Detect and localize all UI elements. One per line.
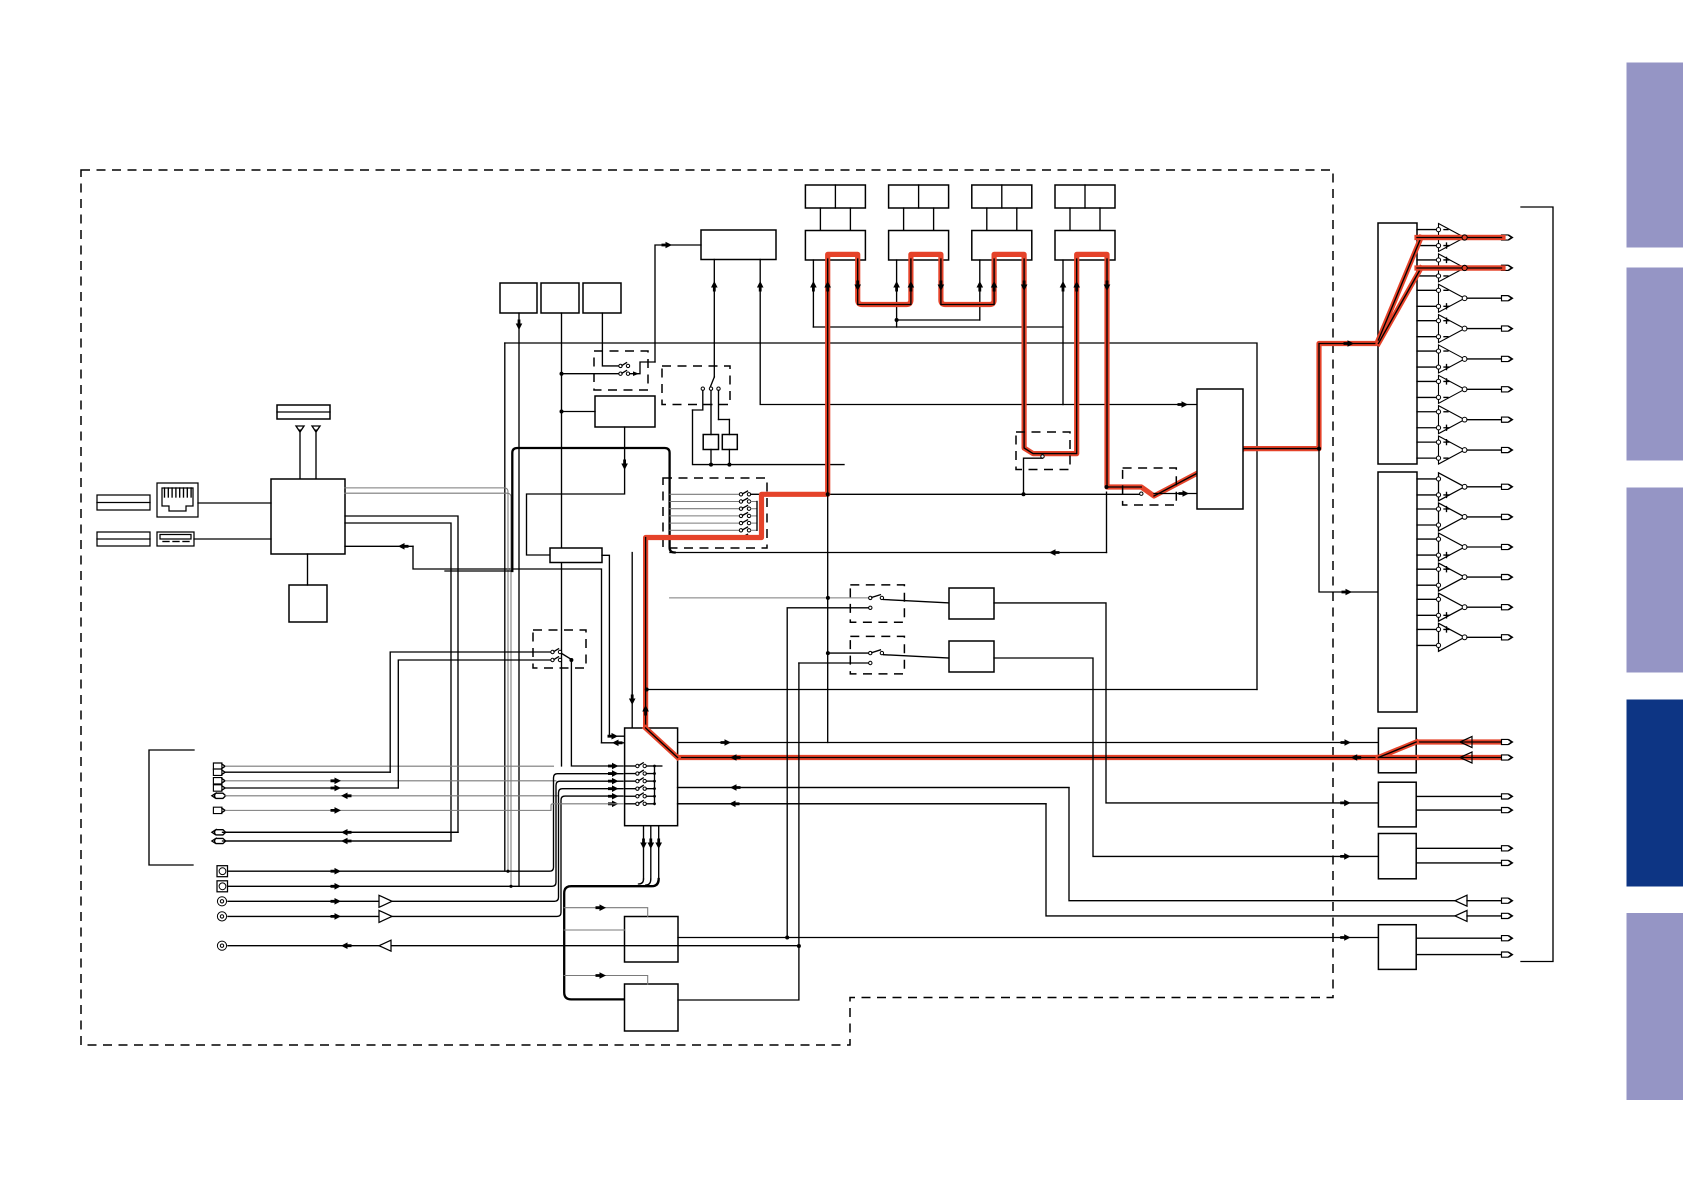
box3 output line xyxy=(602,313,620,366)
av out box xyxy=(1378,782,1416,827)
wire out row 832 xyxy=(226,831,459,833)
hdmi selector box (dashed) xyxy=(663,478,767,548)
sub dac box 2 output xyxy=(678,663,799,1000)
speaker line 5 xyxy=(1467,358,1502,360)
zone driver overlay xyxy=(1460,737,1472,748)
monitor out jack 2 xyxy=(215,838,226,843)
speaker terminal 7 xyxy=(1502,417,1512,422)
power amp 6 xyxy=(1417,380,1437,382)
red dac diagonals overlay xyxy=(1378,238,1421,344)
digital input jack y766 xyxy=(213,763,222,769)
trigger jack 2 xyxy=(1502,952,1512,957)
surround line 6 xyxy=(1467,636,1502,638)
wire net return y569 xyxy=(413,546,602,743)
analog in jack cc1 xyxy=(217,897,226,906)
surround amp 4 xyxy=(1417,568,1437,570)
wire into control box xyxy=(655,245,701,362)
relay B output xyxy=(884,655,949,658)
hdmi input group 3 connector box xyxy=(972,185,1032,208)
surround terminal 5 xyxy=(1502,605,1512,610)
selector row 7 contacts xyxy=(739,536,742,539)
junction red corner xyxy=(826,492,830,496)
zone line drivers xyxy=(1460,737,1472,748)
wire input row y780 xyxy=(226,780,557,782)
selector row1 link xyxy=(751,493,762,495)
wifi antenna board xyxy=(277,405,330,419)
speaker terminal 5 xyxy=(1502,356,1512,361)
network sub link xyxy=(307,554,309,585)
box1 output line xyxy=(518,313,520,886)
arc switch box (dashed) xyxy=(1123,468,1177,505)
hdmi group 4 links xyxy=(1069,208,1071,231)
analog in jack sq1 xyxy=(217,866,228,877)
hdmi group 4 signal line xyxy=(1062,260,1064,405)
dsp input row 4 xyxy=(625,788,636,790)
speaker terminal 4 xyxy=(1502,326,1512,331)
speaker terminal 1 xyxy=(1502,235,1512,240)
buffer A to out xyxy=(994,603,1378,803)
surround amp 2 xyxy=(1417,508,1437,510)
buffer B to out xyxy=(994,658,1378,856)
side tab 3 xyxy=(1627,488,1684,673)
relay contact xyxy=(1041,455,1044,458)
tx backchannel down xyxy=(1106,492,1108,552)
selector row 2 xyxy=(670,501,740,503)
wire out row 841 xyxy=(226,840,452,842)
sub dac box 2 xyxy=(625,984,679,1031)
arrows on red legs xyxy=(824,281,831,292)
subwoofer pre line 1 xyxy=(678,788,1455,901)
wire hdmi g4 to tx y404 xyxy=(1063,404,1197,406)
hdmi out relay box (dashed) xyxy=(1016,432,1070,470)
selector row 5 xyxy=(670,522,740,524)
hdmi group 1 links xyxy=(819,208,821,231)
relay A row2 xyxy=(787,608,868,938)
wire core hdmi chain xyxy=(645,538,647,729)
input relay box S2 (dashed) xyxy=(533,630,586,668)
hdmi input group 1 connector box xyxy=(805,185,865,208)
digital input jack y780 xyxy=(213,778,222,784)
side tab 4 (active, dark) xyxy=(1627,700,1684,887)
hdmi input group 4 connector box xyxy=(1055,185,1115,208)
dsp input row 5 xyxy=(625,795,636,797)
SoC west stub xyxy=(445,570,512,572)
red analog out rows xyxy=(1417,238,1505,269)
wire av2 riser xyxy=(398,660,551,788)
digital input jack y772 xyxy=(213,769,222,775)
OSD output xyxy=(602,555,609,736)
subwoofer jack 1 xyxy=(1502,898,1512,903)
surround amp 6 xyxy=(1417,628,1437,630)
transformer T1 box xyxy=(703,435,718,450)
net return arrow xyxy=(398,543,409,550)
primary rail top xyxy=(719,419,730,421)
relay B row2 xyxy=(799,662,869,664)
digital input jack y795 xyxy=(215,793,226,798)
selector row 1 xyxy=(670,493,740,495)
wire input row y772 xyxy=(226,771,391,773)
hdmi group 1 receiver box xyxy=(805,231,865,261)
dsp outputs east xyxy=(678,787,1069,789)
surround amp 5 xyxy=(1417,598,1437,600)
wire front bus south xyxy=(504,343,506,871)
selector row 4 xyxy=(670,515,740,517)
dsp box xyxy=(625,728,678,826)
wire control to tx xyxy=(759,260,761,344)
speaker terminal 3 xyxy=(1502,296,1512,301)
transformer T2 box xyxy=(722,435,737,450)
side tab 5 xyxy=(1627,913,1684,1100)
analog in jack cc2 xyxy=(217,912,226,921)
speaker line 7 xyxy=(1467,419,1502,421)
dsp input row 2 xyxy=(625,773,636,775)
wire av1 riser xyxy=(390,652,551,772)
USB jack xyxy=(157,532,194,546)
antenna 1 xyxy=(296,426,304,432)
dashed main unit border xyxy=(81,170,1333,1045)
buffer box A xyxy=(949,588,994,619)
power amp 7 xyxy=(1417,411,1437,413)
side tab 2 xyxy=(1627,268,1684,461)
wire soc-hdmi control y553 xyxy=(670,552,1107,554)
system control box xyxy=(701,230,776,260)
dsp to dac bus (bold) xyxy=(564,879,659,999)
speaker terminal 8 xyxy=(1502,447,1512,452)
hdmi group 2 links xyxy=(903,208,905,231)
hdmi group 2 receiver box xyxy=(889,231,949,261)
LAN port plate xyxy=(97,495,150,510)
trigger jack 1 xyxy=(1502,936,1512,941)
wire to dac2 xyxy=(1319,449,1378,592)
wire input row y788 xyxy=(226,787,399,789)
S2 contacts row2 xyxy=(551,658,554,661)
relay A output xyxy=(884,600,949,603)
rec out relay B (dashed) xyxy=(850,636,904,674)
surround line 3 xyxy=(1467,546,1502,548)
surround line 5 xyxy=(1467,606,1502,608)
speaker line 4 xyxy=(1467,328,1502,330)
net ctl line 1 xyxy=(223,516,459,832)
wire analog row 916 xyxy=(228,796,623,916)
hdmi audio down leg xyxy=(827,494,829,742)
input group bracket xyxy=(149,750,194,865)
wire dsp in west y742.8 xyxy=(602,742,625,744)
hdmi tx box xyxy=(1197,389,1243,509)
power amp 2 xyxy=(1417,259,1437,261)
digital input jack y788 xyxy=(213,785,222,791)
power amp 3 xyxy=(1417,289,1437,291)
box2 output line xyxy=(561,313,563,766)
surround amp 1 xyxy=(1417,478,1437,480)
relay A row1 xyxy=(670,597,869,599)
wire input row y766 xyxy=(226,765,554,767)
red to dsp and pre out xyxy=(646,728,1503,758)
dsp input row 1 xyxy=(625,765,636,767)
wire hdmi group bus y327 xyxy=(813,326,1063,328)
dsp red diagonal core xyxy=(646,728,678,758)
relay S1 contacts row2 xyxy=(562,373,621,375)
speaker line 3 xyxy=(1467,297,1502,299)
wire tuner riser r6 xyxy=(551,804,623,811)
T1 ground leg xyxy=(710,450,712,465)
sub dac box 1 inputs xyxy=(564,908,648,917)
rec out relay A (dashed) xyxy=(850,585,904,622)
wire dsp in y736 xyxy=(609,735,624,737)
surround terminal 4 xyxy=(1502,575,1512,580)
wire input row y795 xyxy=(226,795,559,797)
arrow on red feed xyxy=(1344,340,1355,347)
relay B row1 xyxy=(826,651,830,655)
SoC main block (bold) xyxy=(512,448,674,571)
net ctl line 2 xyxy=(223,523,452,841)
av out jack 1 xyxy=(1502,794,1512,799)
speaker line 6 xyxy=(1467,388,1502,390)
rotary to rail right xyxy=(718,390,720,419)
digital input jack y810 xyxy=(213,807,222,813)
zone out box xyxy=(1378,728,1416,773)
subwoofer pre line 2 xyxy=(678,804,1455,916)
trigger out box xyxy=(1378,925,1416,970)
T2 ground leg xyxy=(728,450,730,465)
relay branch xyxy=(1024,458,1043,494)
hdmi group 3 links xyxy=(986,208,988,231)
wire control to rotary xyxy=(713,260,715,344)
video out jack 2 xyxy=(1502,860,1512,865)
buffer box B xyxy=(949,641,994,672)
dsp input bus xyxy=(654,766,656,804)
analog in jack sq2 xyxy=(217,881,228,892)
dsp feed arrow down xyxy=(631,553,633,729)
dac box 2 xyxy=(1378,472,1417,712)
wire analog out row 946 xyxy=(228,945,799,947)
wire core analog rows xyxy=(1417,237,1502,239)
U2 output down xyxy=(527,427,625,555)
red dsp diagonal overlay xyxy=(646,728,678,758)
selector row 3 xyxy=(670,508,740,510)
zone out jack 1 xyxy=(1502,739,1512,744)
wire system bus y343 xyxy=(505,343,1257,690)
wire relay1 to dsp r1 xyxy=(571,661,623,766)
relay S1 contacts row1 xyxy=(619,364,622,367)
rotary to T1 mid xyxy=(710,390,712,434)
wire hdmi audio y494 xyxy=(828,493,1141,495)
buffer amp out xyxy=(379,940,391,951)
LAN link wire xyxy=(198,502,271,504)
power rail outline xyxy=(693,410,845,465)
highlighted red signal path (input to selector to hdmi chain) xyxy=(646,254,1379,728)
sub dac box 1 xyxy=(625,917,679,963)
rotary switch box (dashed) xyxy=(662,366,730,405)
S2 contacts row1 xyxy=(551,650,554,653)
front module box 3 xyxy=(583,283,621,313)
power amp 8 xyxy=(1417,441,1437,443)
relay S1 output xyxy=(630,362,655,374)
wire dsp return y691 xyxy=(647,689,1257,691)
OSD box xyxy=(550,548,602,563)
wire input row y810 xyxy=(226,809,552,811)
dsp input row 3 xyxy=(625,780,636,782)
hdmi group 2 signal line xyxy=(896,260,898,327)
analog out jack cc3 xyxy=(217,941,226,950)
side tab 1 xyxy=(1627,63,1684,248)
power amp 5 xyxy=(1417,350,1437,352)
wire core pre out xyxy=(678,757,1379,759)
arc contact xyxy=(1140,492,1143,495)
antenna 2 xyxy=(312,426,320,432)
av out jack 2 xyxy=(1502,808,1512,813)
front module box 2 xyxy=(541,283,579,313)
net audio line 2 xyxy=(345,493,511,886)
wire y742 to av out xyxy=(678,742,1379,744)
speaker terminal 2 xyxy=(1502,265,1512,270)
av out lines xyxy=(1416,795,1501,797)
red zone diagonal overlay xyxy=(1378,742,1416,758)
signal box U2 xyxy=(595,396,655,427)
surround terminal 1 xyxy=(1502,484,1512,489)
speaker terminal 6 xyxy=(1502,387,1512,392)
video out lines xyxy=(1416,847,1501,849)
rear panel bracket xyxy=(1521,207,1553,962)
zone out red diag core xyxy=(1378,742,1416,758)
sub dac box 2 input xyxy=(564,976,648,985)
arc to tx wire xyxy=(1154,493,1197,495)
surround line 1 xyxy=(1467,486,1502,488)
dsp outputs south xyxy=(643,826,645,879)
trigger out lines xyxy=(1416,937,1501,939)
rail to T2 xyxy=(728,420,730,435)
network sub box xyxy=(289,585,327,622)
hdmi group 3 receiver box xyxy=(972,231,1032,261)
buffer amp in 2 xyxy=(379,910,392,922)
rotary contacts xyxy=(701,387,704,390)
surround terminal 2 xyxy=(1502,514,1512,519)
subwoofer jack 2 xyxy=(1502,913,1512,918)
buffer amp in 1 xyxy=(379,895,392,907)
video out jack 1 xyxy=(1502,846,1512,851)
speaker line 8 xyxy=(1467,449,1502,451)
wire analog row 901 xyxy=(228,789,623,902)
hdmi group 1 signal line xyxy=(812,260,814,327)
S2 output xyxy=(562,654,572,660)
LAN jack RJ45 xyxy=(157,483,198,517)
wire analog row 871 xyxy=(228,774,623,872)
wire hdmi group bus y320 xyxy=(897,319,980,321)
rotary to T1 left xyxy=(693,390,703,410)
sub dac box 1 output xyxy=(678,937,1378,939)
rotary wiper xyxy=(713,343,715,377)
USB link wire xyxy=(194,538,271,540)
front module box 1 xyxy=(500,283,537,313)
dsp input row 6 xyxy=(625,803,636,805)
net audio line 1 xyxy=(345,488,508,871)
selector row 6 xyxy=(670,529,740,531)
zone out jack 2 xyxy=(1502,755,1512,760)
network module box xyxy=(271,479,345,554)
selector bus stub xyxy=(756,502,758,531)
relay box S1 (dashed) xyxy=(594,351,648,390)
USB port plate xyxy=(97,532,150,546)
hdmi input group 2 connector box xyxy=(889,185,949,208)
surround terminal 6 xyxy=(1502,635,1512,640)
hdmi group 3 signal line xyxy=(979,260,981,320)
surround amp 3 xyxy=(1417,538,1437,540)
wire analog row 886 xyxy=(228,781,623,886)
monitor out jack 1 xyxy=(215,830,226,835)
red dac diagonals xyxy=(1378,238,1421,344)
surround terminal 3 xyxy=(1502,544,1512,549)
hdmi group 4 receiver box xyxy=(1055,231,1115,261)
surround line 2 xyxy=(1467,516,1502,518)
power amp 4 xyxy=(1417,320,1437,322)
video out box xyxy=(1378,834,1416,879)
U2 input xyxy=(562,411,596,413)
wire control to tx y404 tap xyxy=(760,343,1063,405)
red analog out rows overlay xyxy=(1417,238,1503,269)
dac box 1 xyxy=(1378,223,1417,464)
surround line 4 xyxy=(1467,576,1502,578)
power amp 1 xyxy=(1417,229,1437,231)
